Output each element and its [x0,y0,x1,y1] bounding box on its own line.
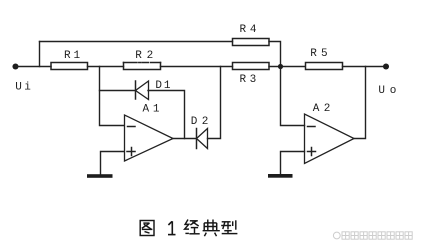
wire R2 to R3 [161,66,233,68]
op-amp A2 [305,114,355,164]
svg-text:D2: D2 [191,116,209,128]
resistor R5 [306,63,343,70]
node Uo output terminal [383,63,389,69]
wire A2 noninverting input to ground [281,152,305,175]
svg-text:Uo: Uo [378,85,396,97]
wire vertical riser to top feedback wire [39,42,41,67]
wire R1 to R2 [88,66,124,68]
wire R3 to R5 [269,66,305,68]
node Ui input terminal [12,63,18,69]
svg-text:A1: A1 [143,104,160,116]
resistor R3 [233,63,270,70]
wire node B down to A1 inverting input [100,67,125,126]
resistor R2 (dashed top border) [124,63,161,70]
wire A1 output to D2 [173,138,197,140]
wire junction down to A2 inverting input [281,67,305,126]
wire top feedback to R4 [40,41,233,43]
wire node B to D1 anode-side branch [100,90,136,92]
diode D1 [136,81,149,100]
caption digit 1 [168,221,176,234]
svg-text:Ui: Ui [15,82,31,94]
wire R5 to output [343,66,387,68]
wire A1 noninverting input to ground [101,152,125,175]
wire A2 output feedback to output node [354,67,366,139]
caption glyph 图 [140,221,154,236]
caption glyph 经 [185,220,200,234]
svg-text:R5: R5 [310,48,327,60]
resistor R4 [233,39,270,46]
svg-text:A2: A2 [313,103,331,115]
watermark @稀土掘金技术社区 [333,232,412,239]
svg-text:R2: R2 [135,50,153,62]
node junction dot R3/R4 [278,64,283,69]
diode D2 [197,129,208,149]
op-amp A1 [125,115,174,161]
wire input to R1 [16,66,52,68]
wire D2 right up to main wire [208,67,221,139]
caption glyph 典 [203,220,220,237]
wire R4 right to junction [269,42,281,67]
svg-text:D1: D1 [155,80,170,92]
caption glyph 型 [221,220,237,233]
svg-text:R3: R3 [240,74,257,86]
caption: 图 1 经典型 [140,220,237,237]
wire D1 right to A1 output [148,91,185,139]
ground for A1 [87,174,113,178]
resistor R1 [51,63,88,70]
ground for A2 [268,174,293,178]
svg-text:R1: R1 [64,50,80,62]
svg-text:R4: R4 [240,24,257,36]
